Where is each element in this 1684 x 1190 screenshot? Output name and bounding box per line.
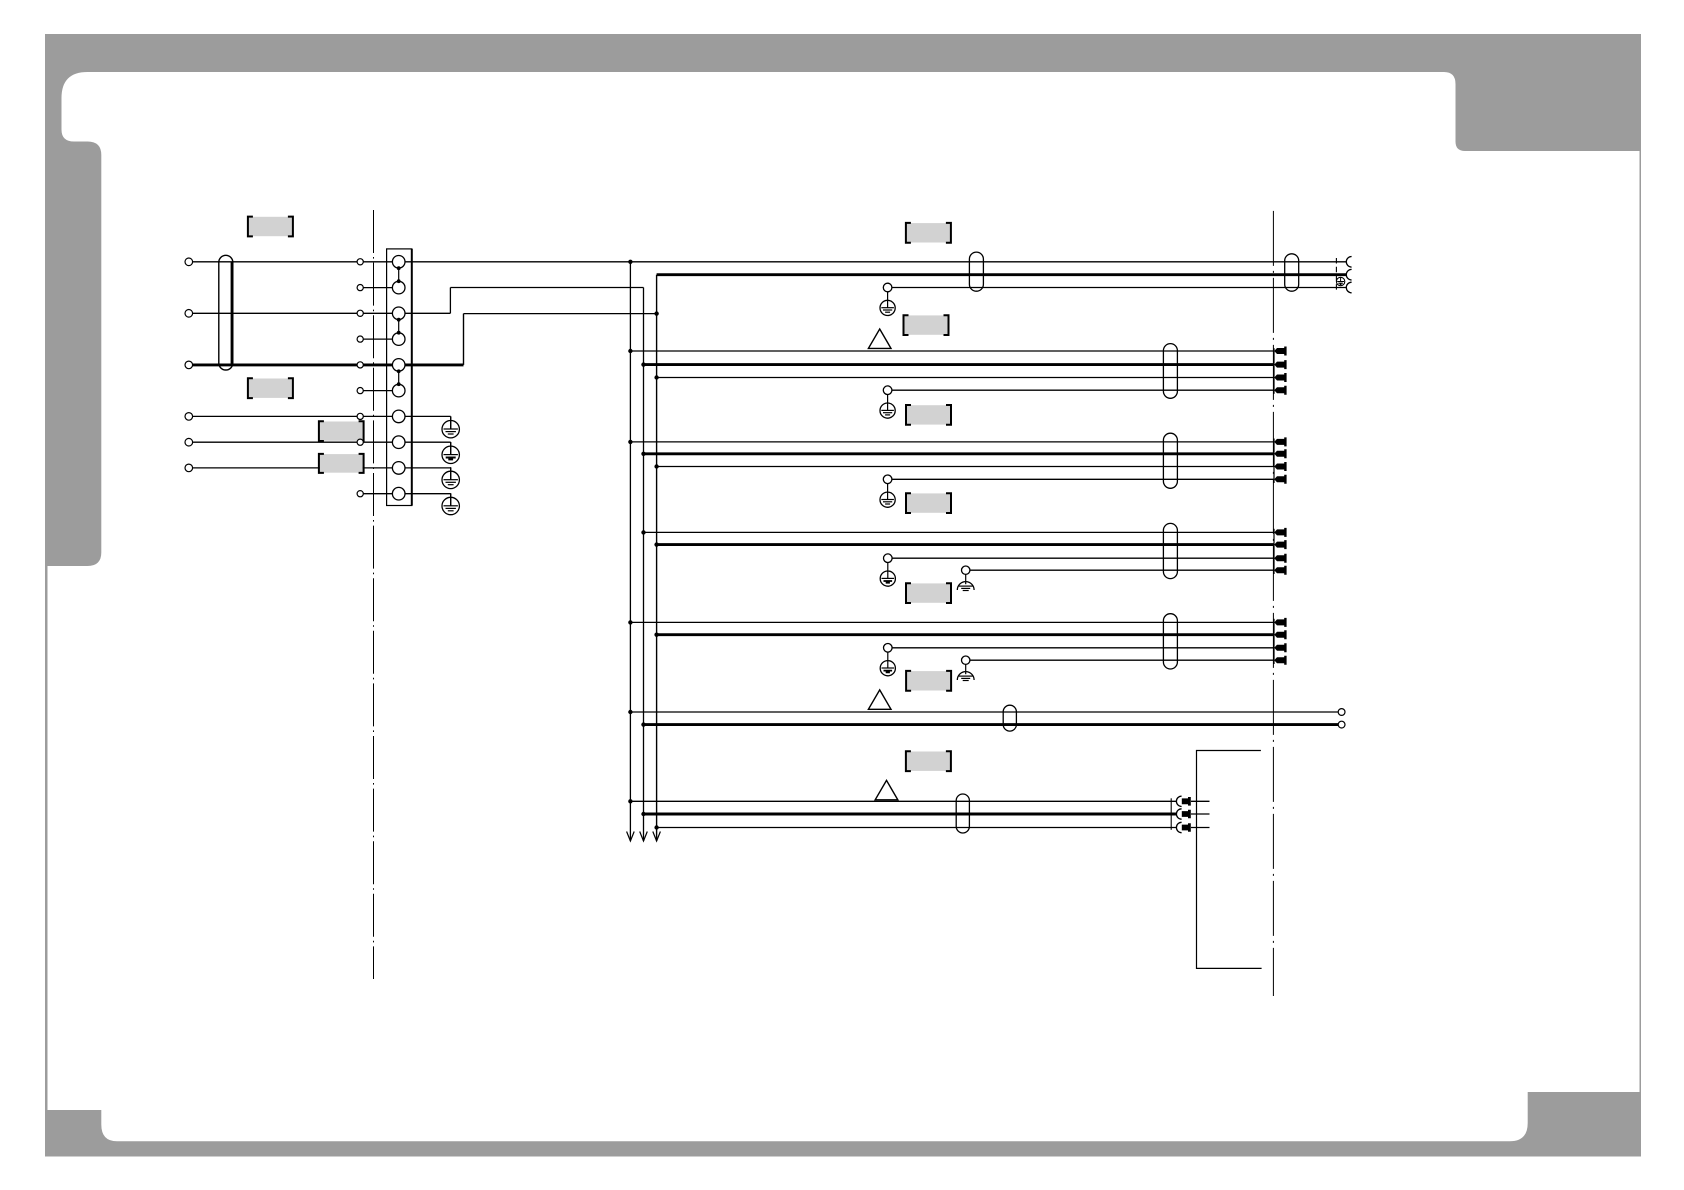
junction — [641, 362, 645, 366]
connector pin (flag) — [1274, 437, 1286, 446]
cable shield — [219, 255, 233, 370]
junction — [654, 311, 658, 315]
wire — [405, 467, 451, 469]
protective earth — [442, 421, 459, 438]
terminal point — [357, 362, 363, 368]
terminal point — [357, 285, 363, 291]
wire — [892, 647, 1274, 649]
chassis ground — [962, 656, 970, 664]
label box (blank) — [907, 405, 950, 424]
label box (blank) — [907, 583, 950, 602]
junction — [628, 799, 632, 803]
wire — [892, 557, 1274, 559]
connector pin (flag) — [1274, 566, 1286, 575]
wire — [630, 711, 1338, 713]
junction — [641, 452, 645, 456]
wire (bold) — [657, 633, 1275, 636]
connector pin (flag) — [1274, 347, 1286, 356]
cable shield — [1163, 523, 1177, 578]
terminal TB1-4 — [392, 333, 405, 346]
terminal TB1-7 — [392, 410, 405, 423]
connector pin (flag) — [1274, 386, 1286, 395]
wire — [192, 415, 398, 417]
wire (TB1-3 to bus B) — [405, 312, 450, 314]
junction — [628, 710, 632, 714]
protective earth — [442, 471, 459, 488]
cable shield — [1003, 705, 1016, 731]
jumper link TB1-3/4 — [398, 320, 400, 333]
terminal TB1-2 — [392, 281, 405, 294]
connector pin (flag) — [1274, 462, 1286, 471]
terminal point — [357, 413, 363, 419]
connector boundary — [1273, 529, 1275, 574]
terminal point — [357, 310, 363, 316]
terminal point — [357, 259, 363, 265]
filter component (label box) — [320, 454, 363, 473]
label box (blank) — [249, 217, 292, 236]
shield drain terminal + protective earth (filled) — [884, 644, 893, 653]
wire stub — [357, 338, 399, 340]
connector boundary — [1273, 439, 1275, 484]
socket contact — [1346, 257, 1351, 268]
connector boundary — [1273, 619, 1275, 664]
junction — [641, 530, 645, 534]
terminal (input 9) — [185, 464, 193, 472]
junction — [628, 260, 632, 264]
wire — [192, 467, 398, 469]
cable shield — [969, 252, 983, 291]
connector boundary (dashed) — [1335, 258, 1337, 292]
wire stub — [357, 493, 399, 495]
wire — [192, 261, 398, 263]
label box (blank) — [907, 671, 950, 690]
protective earth — [442, 497, 459, 514]
wire (TB1-5 to bus C, bold) — [405, 363, 464, 366]
junction — [654, 464, 658, 468]
connector pin (flag) — [1274, 630, 1286, 639]
wire — [405, 441, 451, 443]
junction — [654, 633, 658, 637]
terminal (input 7) — [185, 413, 193, 421]
shield drain terminal + protective earth — [883, 283, 892, 292]
wire — [644, 531, 1275, 533]
bus C (vertical) — [656, 275, 658, 841]
junction — [641, 812, 645, 816]
wire — [630, 800, 1176, 802]
warning triangle — [868, 329, 891, 348]
label box (blank) — [907, 223, 950, 242]
junction — [654, 825, 658, 829]
terminal TB1-1 — [392, 255, 405, 268]
protective earth (filled) — [442, 446, 459, 463]
terminal point — [357, 491, 363, 497]
connector pin (flag) — [1274, 540, 1286, 549]
wire — [405, 493, 451, 495]
connector pin (flag) — [1274, 643, 1286, 652]
wire — [630, 621, 1274, 623]
connector pin (bullet) — [1176, 822, 1181, 832]
cable shield — [1163, 614, 1177, 669]
wire — [405, 415, 451, 417]
warning triangle — [875, 780, 898, 799]
junction — [628, 349, 632, 353]
terminal TB1-9 — [392, 462, 405, 475]
wire — [892, 478, 1274, 480]
device enclosure (open box) — [1197, 751, 1262, 969]
wire (bold) — [657, 543, 1275, 546]
jumper link TB1-1/2 — [398, 268, 400, 281]
wire — [405, 261, 1346, 263]
wire (mains, bold) — [192, 363, 398, 366]
connector boundary — [1273, 348, 1275, 394]
terminal TB1-8 — [392, 436, 405, 449]
cable shield — [1163, 433, 1177, 488]
wire — [892, 287, 1346, 289]
filter component (label box) — [320, 422, 363, 441]
earth (mini) — [1336, 277, 1344, 285]
terminal TB1-3 — [392, 307, 405, 320]
junction — [654, 542, 658, 546]
connector pin (flag) — [1274, 475, 1286, 484]
chassis ground — [962, 566, 970, 574]
junction — [641, 722, 645, 726]
wire — [657, 827, 1177, 829]
junction — [628, 440, 632, 444]
wire (bold) — [657, 273, 1347, 276]
terminal (input 5) — [185, 361, 193, 369]
junction — [654, 375, 658, 379]
wire stub — [1191, 827, 1210, 829]
terminal TB1-6 — [392, 384, 405, 397]
terminal point — [357, 439, 363, 445]
wire — [657, 377, 1275, 379]
connector pin (flag) — [1274, 618, 1286, 627]
wire — [630, 441, 1274, 443]
wire — [892, 389, 1274, 391]
connector boundary — [1170, 798, 1172, 830]
label box (blank) — [907, 493, 950, 512]
connector pin (flag) — [1274, 528, 1286, 537]
junction — [628, 620, 632, 624]
terminal (input 8) — [185, 438, 193, 446]
wire — [657, 466, 1275, 468]
socket contact — [1346, 282, 1351, 293]
shield drain terminal + protective earth — [883, 475, 892, 484]
warning triangle — [868, 690, 891, 709]
terminal (input 3) — [185, 310, 193, 318]
connector pin (flag) — [1274, 656, 1286, 665]
wire (bold) — [644, 813, 1177, 816]
bus B (vertical) — [643, 288, 645, 842]
jumper link TB1-5/6 — [398, 371, 400, 384]
wire — [192, 441, 398, 443]
terminal block TB1 — [387, 249, 412, 506]
enclosure boundary (dash-dot line) — [1272, 211, 1274, 996]
label box (blank) — [907, 752, 950, 771]
wire stub — [357, 287, 399, 289]
connector pin (bullet) — [1176, 809, 1181, 819]
cable shield — [1163, 344, 1177, 399]
terminal (input 1) — [185, 258, 193, 266]
wire — [970, 569, 1274, 571]
shield drain terminal + protective earth — [883, 386, 892, 395]
cable shield — [956, 794, 969, 833]
wire — [630, 350, 1274, 352]
shield drain terminal + protective earth (filled) — [884, 554, 893, 563]
connector pin (bullet) — [1176, 796, 1181, 806]
wire (bold) — [644, 452, 1275, 455]
label box (blank) — [904, 315, 947, 334]
wire stub — [1191, 800, 1210, 802]
wire — [970, 659, 1274, 661]
terminal point — [357, 336, 363, 342]
wire stub — [357, 390, 399, 392]
connector pin (flag) — [1274, 360, 1286, 369]
bus A (vertical) — [629, 262, 631, 841]
terminal TB1-10 — [392, 487, 405, 500]
terminal — [1338, 709, 1345, 716]
terminal — [1338, 721, 1345, 728]
connector pin (flag) — [1274, 554, 1286, 563]
connector pin (flag) — [1274, 373, 1286, 382]
wire (bold) — [644, 723, 1339, 726]
wire stub — [1191, 813, 1210, 815]
cable shield — [1285, 254, 1299, 291]
terminal TB1-5 — [392, 359, 405, 372]
connector pin (flag) — [1274, 449, 1286, 458]
label box (blank) — [249, 379, 292, 398]
wire (bold) — [644, 363, 1275, 366]
socket contact — [1346, 269, 1351, 280]
enclosure boundary (dash-dot line) — [373, 210, 375, 979]
wire — [192, 312, 398, 314]
terminal point — [357, 388, 363, 394]
